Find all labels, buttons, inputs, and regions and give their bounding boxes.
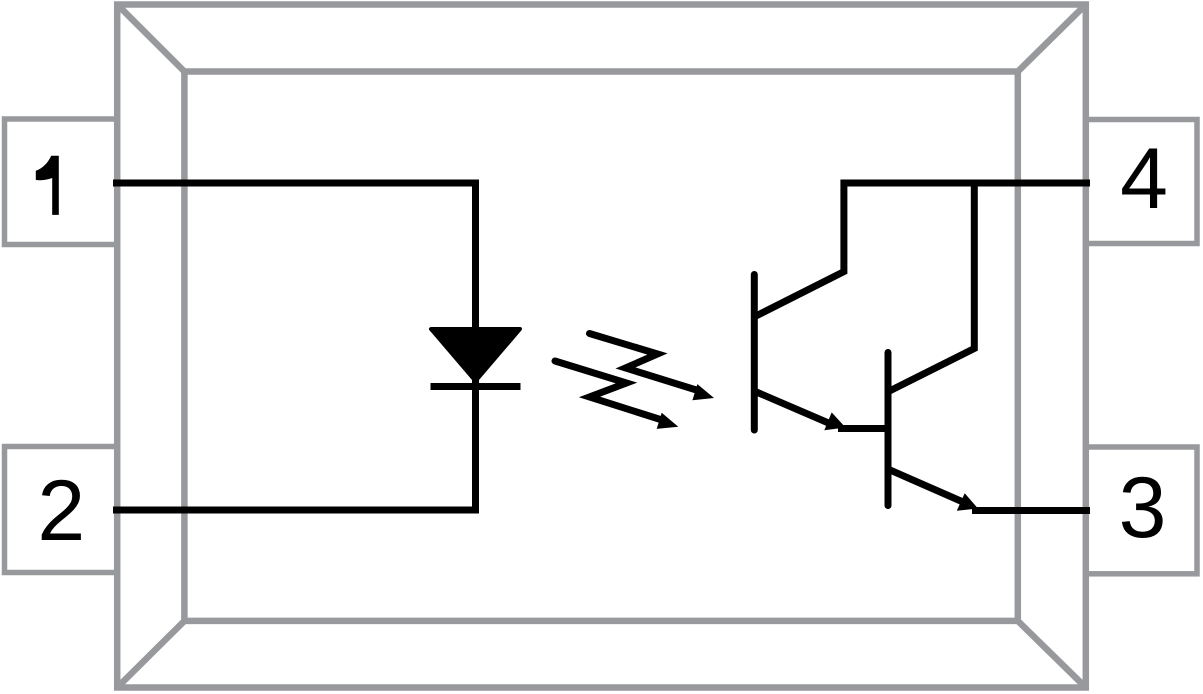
transistor Q2 base bar <box>885 353 892 506</box>
transistor Q2 emitter wire to pin 3 <box>887 469 1091 511</box>
package corner bevel top-left <box>117 5 184 72</box>
pin 1 <box>5 119 118 245</box>
pin 2 <box>5 447 118 573</box>
package corner bevel top-right <box>1018 5 1086 72</box>
light arrow upper <box>590 334 715 401</box>
svg-text:4: 4 <box>1120 131 1168 227</box>
transistor Q2 collector wire <box>887 183 975 393</box>
pin 3 <box>1086 447 1197 574</box>
wire LED cathode to pin 2 <box>113 380 476 510</box>
svg-text:3: 3 <box>1119 460 1167 556</box>
svg-text:2: 2 <box>37 463 85 559</box>
transistor Q1 collector wire to pin 4 <box>753 183 1090 318</box>
package corner bevel bottom-left <box>117 621 184 688</box>
LED D1 anode triangle <box>431 329 520 381</box>
transistor Q1 emitter <box>753 391 890 431</box>
package inner outline <box>184 72 1017 621</box>
transistor Q1 base bar <box>751 275 758 431</box>
light arrow lower <box>555 361 678 429</box>
wire pin 1 to LED anode <box>113 183 476 328</box>
LED D1 cathode bar <box>431 383 521 390</box>
pin 4 <box>1086 120 1197 244</box>
package corner bevel bottom-right <box>1018 621 1086 688</box>
package outer outline <box>117 5 1086 688</box>
